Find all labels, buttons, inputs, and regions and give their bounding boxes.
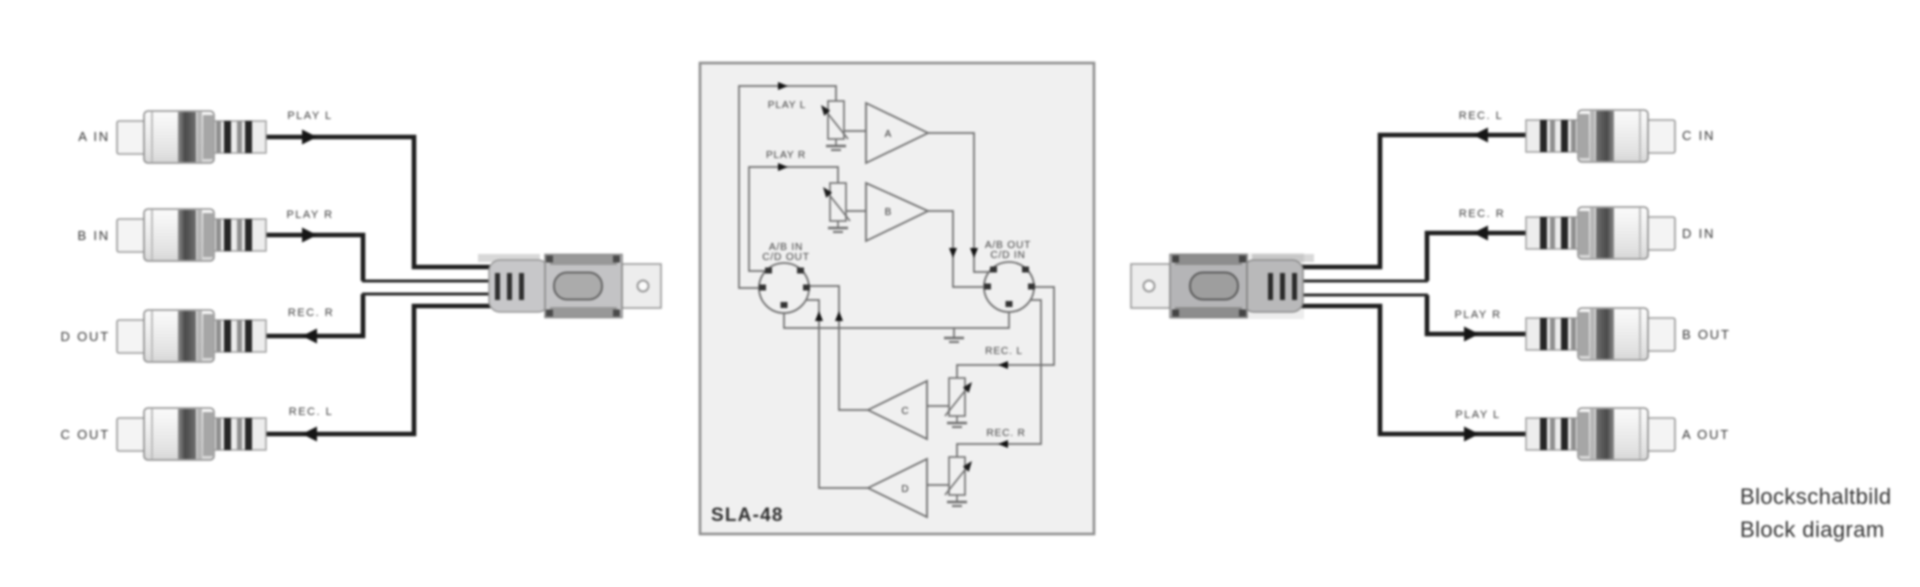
svg-text:PLAY L: PLAY L <box>768 100 806 111</box>
svg-text:B: B <box>885 207 892 218</box>
svg-text:REC. L: REC. L <box>1459 110 1503 122</box>
svg-text:REC. L: REC. L <box>289 406 333 418</box>
svg-text:D: D <box>901 484 908 495</box>
svg-text:D IN: D IN <box>1682 226 1715 241</box>
svg-text:B IN: B IN <box>78 228 110 243</box>
svg-text:A OUT: A OUT <box>1682 427 1730 442</box>
svg-text:PLAY R: PLAY R <box>286 209 333 221</box>
svg-text:A IN: A IN <box>78 129 110 144</box>
svg-text:A: A <box>885 129 892 140</box>
svg-text:PLAY L: PLAY L <box>287 110 332 122</box>
svg-text:D OUT: D OUT <box>61 329 110 344</box>
svg-text:REC. L: REC. L <box>985 346 1023 357</box>
svg-text:C/D OUT: C/D OUT <box>762 252 809 263</box>
svg-text:B OUT: B OUT <box>1682 327 1731 342</box>
svg-text:C: C <box>901 406 908 417</box>
svg-text:PLAY R: PLAY R <box>766 150 806 161</box>
svg-text:REC. R: REC. R <box>986 428 1025 439</box>
svg-text:SLA-48: SLA-48 <box>711 505 784 526</box>
svg-text:C OUT: C OUT <box>61 427 110 442</box>
svg-text:REC. R: REC. R <box>1459 208 1505 220</box>
svg-text:PLAY L: PLAY L <box>1455 409 1500 421</box>
svg-text:Blockschaltbild: Blockschaltbild <box>1740 484 1892 509</box>
svg-text:REC. R: REC. R <box>288 307 334 319</box>
svg-text:C/D IN: C/D IN <box>990 250 1025 261</box>
svg-text:Block diagram: Block diagram <box>1740 517 1885 542</box>
svg-text:PLAY R: PLAY R <box>1454 309 1501 321</box>
svg-text:C IN: C IN <box>1682 128 1715 143</box>
